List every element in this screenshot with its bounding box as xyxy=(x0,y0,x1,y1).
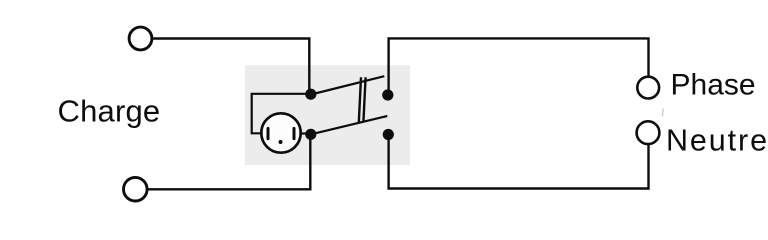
relay highlight box xyxy=(245,65,410,165)
terminal Neutre xyxy=(637,121,660,144)
wire: Charge top terminal to corner, down into relay box to node A xyxy=(152,39,309,92)
motor symbol right bar xyxy=(293,128,296,138)
terminal Charge top xyxy=(129,27,152,50)
node C xyxy=(305,129,316,140)
motor symbol left bar xyxy=(267,128,270,138)
wire: bottom bus from node D to Neutre terminal xyxy=(389,137,649,189)
wire: coil loop from node A to motor circle left terminal xyxy=(252,94,308,134)
mechanical linkage bar 2 xyxy=(363,77,365,122)
terminal Charge bottom xyxy=(124,177,148,201)
wire: top bus from above node B to Phase terminal xyxy=(389,38,649,92)
contact arm top (node A to tip) xyxy=(311,76,384,94)
contact arm bottom (node C to tip) xyxy=(311,116,387,134)
svg-text:Phase: Phase xyxy=(671,69,756,102)
wire: motor circle right terminal to node C xyxy=(302,132,309,134)
faint mark between Phase and Neutre terminals xyxy=(661,109,664,117)
mechanical linkage bar 1 xyxy=(359,77,361,122)
wire: Charge bottom terminal to corner, up to node C xyxy=(147,137,310,189)
node D xyxy=(383,129,394,140)
svg-text:Charge: Charge xyxy=(58,94,161,129)
motor/timer symbol circle xyxy=(261,113,300,152)
svg-text:Neutre: Neutre xyxy=(666,123,768,157)
motor symbol bottom dot xyxy=(279,140,283,144)
terminal Phase xyxy=(637,77,659,99)
node B xyxy=(382,89,393,100)
node A xyxy=(305,89,316,100)
